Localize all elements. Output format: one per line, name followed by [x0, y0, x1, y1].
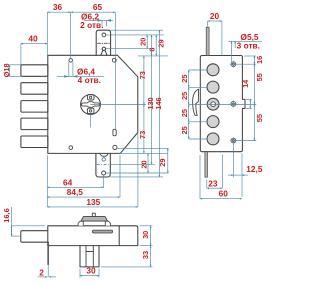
svg-text:25: 25 [180, 92, 189, 100]
svg-text:30: 30 [86, 266, 96, 276]
svg-text:135: 135 [86, 197, 100, 207]
svg-text:25: 25 [180, 74, 189, 82]
dim 73/73 chain [91, 56, 169, 153]
bottom tab hole B [102, 171, 106, 175]
top tab keyhole lower [101, 47, 107, 55]
bottom view inner line [118, 226, 120, 246]
bolt bar 5 [21, 136, 48, 148]
bottom view bolt [21, 231, 48, 243]
corner hole bottom-left [69, 146, 73, 150]
dim 12,5 [228, 143, 263, 197]
svg-text:2 отв.: 2 отв. [80, 20, 103, 30]
vertical slot [113, 129, 116, 136]
dim 33 housing depth [101, 246, 153, 267]
dim 20/29 bottom-right [106, 148, 169, 173]
hat nub [92, 213, 95, 217]
cylinder housing inner left [85, 246, 87, 267]
bottom tab arc notch [100, 153, 108, 156]
dim 16/55/55 right chain [236, 56, 264, 141]
svg-text:84,5: 84,5 [67, 187, 84, 197]
bottom tab dash-dot line [97, 163, 110, 165]
svg-text:Ø18: Ø18 [2, 63, 11, 77]
dim 14 notch [241, 79, 252, 109]
svg-text:12,5: 12,5 [246, 164, 263, 174]
svg-text:73: 73 [138, 71, 147, 79]
screw hole 3 [230, 137, 237, 144]
screw hole 1 [230, 61, 237, 68]
lever spring [193, 89, 199, 115]
label D6,2 2 otv [80, 12, 113, 30]
dim 135 [47, 134, 138, 207]
round bolt 2 [207, 81, 219, 93]
svg-text:16: 16 [255, 56, 264, 64]
cylinder housing [80, 246, 99, 267]
dim 130 chain [110, 35, 155, 165]
svg-text:23: 23 [208, 178, 218, 188]
hat right foot [105, 221, 110, 226]
center line through cylinder row [189, 104, 257, 106]
svg-text:16,6: 16,6 [2, 208, 11, 222]
dim 84,5 [47, 155, 120, 197]
svg-text:146: 146 [154, 97, 163, 109]
bottom screw hole [89, 110, 91, 112]
corner hole top-right [112, 58, 116, 62]
svg-text:73: 73 [138, 131, 147, 139]
faceplate edge top strip [206, 27, 209, 55]
svg-text:64: 64 [63, 177, 73, 187]
dim 40 top-left [21, 34, 47, 65]
round bolt 4 [207, 116, 219, 128]
bolt bar 3 [21, 101, 48, 113]
faceplate edge bottom strip [205, 152, 208, 178]
cylinder boss [207, 98, 219, 110]
svg-text:20: 20 [210, 11, 220, 21]
svg-text:25: 25 [180, 109, 189, 117]
dim 2 faceplate [38, 265, 56, 277]
cylinder housing inner right [92, 246, 94, 267]
dim 16,6 bottom view [2, 207, 45, 236]
dim D18 bolts [2, 63, 21, 77]
bottom view body [48, 226, 138, 246]
svg-text:2: 2 [39, 267, 44, 277]
screw hole 2 [230, 100, 237, 107]
slot in bottom view [92, 230, 112, 233]
hat bar [81, 217, 108, 222]
dim 20 side top [208, 11, 222, 56]
top screw slot [87, 95, 94, 100]
top mounting tab [96, 30, 110, 55]
svg-text:3 отв.: 3 отв. [237, 40, 260, 50]
hat left foot [78, 221, 83, 226]
svg-text:60: 60 [219, 188, 229, 198]
keyway slot [82, 102, 100, 108]
round bolt 5 [207, 133, 219, 145]
dims 25 x4 left of side view [180, 70, 207, 139]
lock body outline [48, 55, 138, 153]
bolt bar 1 [21, 65, 48, 77]
bolt bar 2 [21, 83, 48, 95]
top tab hole upper [102, 33, 106, 37]
svg-text:4 отв.: 4 отв. [78, 75, 101, 85]
svg-text:14: 14 [241, 79, 250, 88]
dim 30 body depth [140, 226, 153, 246]
bolt bar 4 [21, 118, 48, 130]
label D6,4 4 otv [57, 62, 104, 85]
corner hole bottom-right [113, 145, 117, 149]
dim 20/8/29 top-right [106, 35, 168, 56]
dim 60 [200, 155, 242, 198]
bottom tab hole A [102, 158, 105, 161]
dim 36 / 65 top [47, 2, 115, 129]
svg-text:20: 20 [139, 38, 148, 46]
dim 23 [207, 155, 223, 189]
svg-text:29: 29 [156, 39, 165, 47]
svg-text:20: 20 [140, 160, 149, 168]
top hat tab profile [78, 213, 110, 226]
faceplate thickness line [47, 242, 49, 265]
dim 30 housing [80, 266, 99, 278]
svg-text:40: 40 [28, 34, 38, 44]
top screw hole [89, 96, 91, 98]
corner hole top-left [69, 59, 73, 63]
svg-text:55: 55 [255, 114, 264, 122]
cylinder rosette circle [81, 95, 101, 115]
svg-text:33: 33 [141, 251, 150, 259]
dim 64 [47, 155, 103, 207]
label D5,5 3 otv [228, 32, 262, 62]
bottom mounting tab [96, 153, 110, 177]
side plate outline [200, 56, 245, 152]
top tab dash-dot line [98, 42, 110, 44]
dim 146 chain [110, 30, 163, 177]
cylinder housing crossbar [86, 251, 93, 253]
bottom screw slot [87, 108, 94, 113]
svg-text:30: 30 [141, 231, 150, 239]
svg-text:29: 29 [158, 158, 167, 166]
svg-text:25: 25 [180, 126, 189, 134]
svg-text:36: 36 [53, 2, 63, 12]
round bolt 1 [207, 64, 219, 76]
svg-text:55: 55 [255, 73, 264, 81]
cylinder boss center [211, 102, 216, 107]
